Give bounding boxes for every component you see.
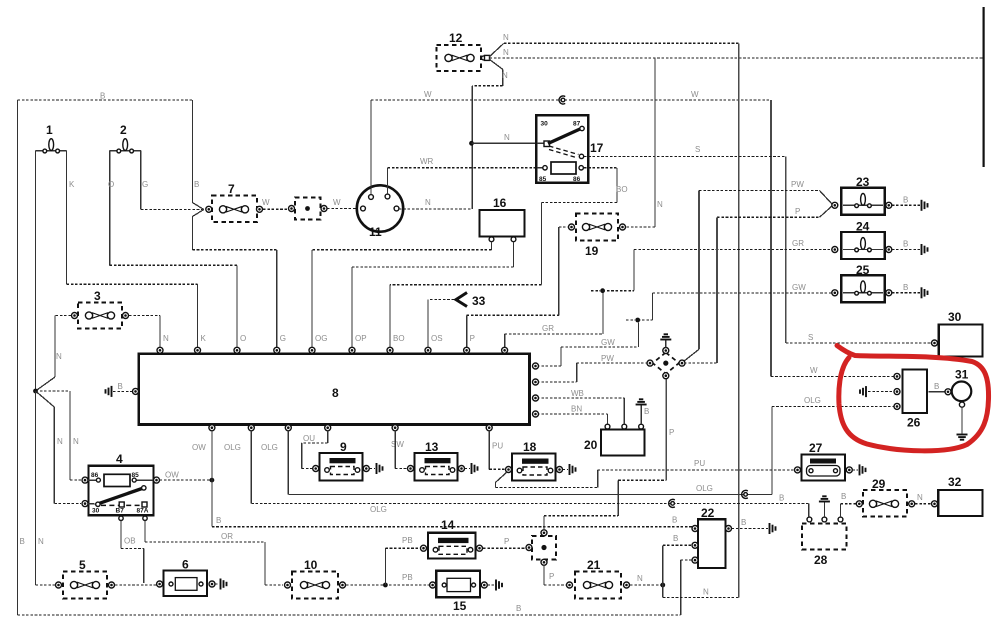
- ground right of 23: [922, 200, 928, 211]
- connector in OLG2: [742, 490, 748, 498]
- wire fuse 5 to lamp 6: [115, 584, 157, 586]
- svg-text:11: 11: [369, 225, 382, 239]
- svg-text:20: 20: [584, 438, 598, 452]
- wire B from 24: [892, 249, 920, 251]
- terminal 27 left: [795, 467, 801, 473]
- module 26: [894, 370, 927, 430]
- svg-text:B7: B7: [116, 508, 125, 515]
- ground right of 27: [860, 464, 866, 475]
- wire N to fuse 3: [55, 315, 71, 317]
- svg-text:GW: GW: [601, 338, 615, 347]
- fuse 7: [206, 182, 263, 222]
- terminal 8 bottom: [486, 425, 492, 431]
- terminal 13 left: [408, 466, 414, 472]
- svg-text:B: B: [216, 516, 221, 525]
- wire O drop: [236, 265, 238, 348]
- svg-text:N: N: [56, 352, 62, 361]
- svg-text:W: W: [810, 366, 818, 375]
- terminal 8 right: [533, 411, 539, 417]
- wire B from 22: [732, 528, 769, 530]
- svg-text:15: 15: [453, 599, 467, 613]
- wire W top: [371, 99, 771, 101]
- wire N from fuse 19: [627, 226, 656, 228]
- svg-text:PW: PW: [601, 354, 614, 363]
- wire N to relay 4 pin 30: [36, 391, 55, 407]
- wire OB from relay 4: [120, 521, 122, 549]
- ground right of 9: [377, 463, 383, 474]
- svg-text:N: N: [425, 198, 431, 207]
- wire OLG2 drop: [287, 430, 289, 494]
- wire PW top: [699, 189, 819, 191]
- terminal 13 right: [459, 466, 465, 472]
- fuse 10: [285, 558, 346, 599]
- svg-text:19: 19: [585, 244, 599, 258]
- svg-text:B: B: [903, 283, 908, 292]
- svg-text:24: 24: [856, 220, 870, 234]
- svg-text:PW: PW: [791, 180, 804, 189]
- svg-text:B: B: [841, 492, 846, 501]
- wire BN: [537, 413, 608, 415]
- terminal 27 right: [846, 467, 852, 473]
- wire OG from 16: [491, 242, 493, 250]
- wire W connector to 11: [327, 208, 360, 210]
- ground right of 15: [496, 580, 502, 591]
- svg-text:N: N: [503, 33, 509, 42]
- svg-text:N: N: [504, 133, 510, 142]
- terminal 8 top G: [274, 347, 280, 353]
- motor 31: [945, 368, 971, 408]
- wire PW from 8: [537, 381, 577, 383]
- wire B top border: [18, 99, 193, 101]
- wire S to 30: [786, 342, 932, 344]
- svg-text:N: N: [38, 537, 44, 546]
- motor 27: [802, 441, 846, 481]
- motor 18: [512, 440, 556, 481]
- svg-text:86: 86: [91, 472, 99, 479]
- svg-text:W: W: [333, 198, 341, 207]
- wire N fan down: [489, 59, 503, 69]
- fuse 29: [856, 477, 914, 517]
- fuse 5: [56, 558, 115, 599]
- svg-text:BO: BO: [616, 185, 628, 194]
- wire PU to 27: [598, 469, 796, 471]
- svg-text:OR: OR: [221, 532, 233, 541]
- terminal 8 bottom: [285, 425, 291, 431]
- svg-text:OW: OW: [192, 443, 206, 452]
- wire B from 9: [370, 468, 376, 470]
- distributor 11: [357, 185, 403, 239]
- wire PW riser diag: [684, 349, 700, 361]
- wire OW from relay 4: [160, 479, 210, 481]
- svg-text:PU: PU: [694, 459, 705, 468]
- svg-text:30: 30: [541, 121, 549, 128]
- wire N from 1 left: [35, 151, 37, 389]
- svg-text:K: K: [69, 180, 75, 189]
- wire OR from relay 4: [144, 521, 146, 543]
- svg-text:S: S: [695, 145, 700, 154]
- wire B to 22 pin1: [212, 526, 693, 528]
- svg-text:6: 6: [182, 558, 189, 572]
- svg-text:OLG: OLG: [696, 484, 713, 493]
- wire B from 25: [892, 292, 920, 294]
- wire N top run: [504, 42, 739, 44]
- svg-text:OP: OP: [355, 334, 367, 343]
- battery 20: [584, 424, 645, 455]
- svg-text:P: P: [504, 537, 509, 546]
- svg-text:W: W: [424, 90, 432, 99]
- wire W to 26: [771, 375, 894, 377]
- ground left of 26: [860, 386, 866, 397]
- wire 31 to ground: [961, 408, 963, 434]
- terminal 8 top K: [195, 347, 201, 353]
- svg-text:B: B: [903, 195, 908, 204]
- wire WR riser from 11: [387, 168, 389, 194]
- svg-text:21: 21: [587, 558, 601, 572]
- wire OW drop: [211, 430, 213, 478]
- wire GR from 8: [504, 334, 506, 348]
- svg-text:OW: OW: [165, 471, 179, 480]
- wire P from 14: [483, 547, 526, 549]
- svg-text:30: 30: [92, 508, 100, 515]
- relay 22: [692, 506, 732, 568]
- svg-text:N: N: [917, 493, 923, 502]
- svg-text:B: B: [100, 92, 105, 101]
- svg-text:B: B: [779, 494, 784, 503]
- terminal 9 left: [313, 466, 319, 472]
- svg-text:K: K: [201, 334, 207, 343]
- wire PB to 14: [385, 547, 420, 549]
- terminal 14 right: [477, 545, 483, 551]
- module 8: [139, 354, 530, 425]
- wire G branch diag: [192, 210, 203, 217]
- wire GW stub: [626, 319, 635, 321]
- svg-text:B: B: [741, 518, 746, 527]
- relay 17: [536, 115, 603, 183]
- wire B from 20 pin3: [640, 405, 642, 425]
- wire S drop: [785, 156, 787, 343]
- motor 9: [320, 440, 363, 481]
- svg-text:O: O: [240, 334, 246, 343]
- svg-text:G: G: [280, 334, 286, 343]
- ground above 20: [636, 399, 647, 404]
- svg-text:3: 3: [94, 289, 101, 303]
- wire N down to fuse 5: [35, 391, 37, 585]
- svg-text:WB: WB: [571, 389, 584, 398]
- wire OS riser: [427, 300, 429, 348]
- svg-text:16: 16: [493, 196, 507, 210]
- wire N fan up: [489, 43, 504, 57]
- wire N jog: [472, 85, 503, 87]
- svg-text:B: B: [644, 407, 649, 416]
- svg-text:N: N: [163, 334, 169, 343]
- wire B to 8 left: [113, 390, 132, 392]
- wire P from diamond: [665, 378, 667, 481]
- svg-text:7: 7: [228, 182, 235, 196]
- wire PU under run: [495, 486, 597, 488]
- wire W fuse 7 to connector: [263, 208, 288, 210]
- svg-text:N: N: [703, 588, 709, 597]
- svg-text:G: G: [142, 180, 148, 189]
- node OW junction: [210, 478, 215, 483]
- ground right of 22: [770, 523, 776, 534]
- svg-text:P: P: [549, 572, 554, 581]
- ground above 28: [819, 496, 830, 501]
- terminal 8 top OS: [425, 347, 431, 353]
- wire ground to 26: [868, 391, 894, 393]
- motor 13: [415, 440, 458, 481]
- wire PU underpass: [495, 472, 507, 483]
- ground right of 6: [221, 579, 227, 590]
- wire W drop right: [770, 100, 772, 376]
- lamp 25: [832, 263, 892, 302]
- junction diamond: [647, 348, 685, 379]
- sender 1: [36, 123, 67, 153]
- terminal 8 top O: [234, 347, 240, 353]
- wire OW/B drop: [211, 430, 213, 527]
- wire P to diamond: [684, 362, 717, 364]
- lamp 23: [832, 175, 892, 215]
- ground above diamond: [660, 334, 671, 339]
- svg-text:27: 27: [809, 441, 823, 455]
- module 16: [480, 196, 525, 242]
- wire N into fuse 5: [36, 584, 56, 586]
- svg-text:W: W: [262, 198, 270, 207]
- svg-text:GW: GW: [792, 283, 806, 292]
- node PB junction: [383, 583, 388, 588]
- fuse 12: [436, 31, 489, 71]
- wire N from fuse 3: [129, 315, 160, 317]
- arrow 33: [430, 293, 486, 309]
- svg-text:P: P: [669, 428, 674, 437]
- connector in OLG1: [669, 499, 675, 507]
- svg-text:BO: BO: [393, 334, 405, 343]
- wire N riser to 22 pin2: [662, 545, 664, 585]
- svg-text:1: 1: [46, 123, 53, 137]
- svg-text:B: B: [516, 604, 521, 613]
- terminal 8 right: [533, 363, 539, 369]
- wire B from 27: [852, 469, 858, 471]
- svg-text:B: B: [934, 382, 939, 391]
- svg-text:B: B: [672, 516, 677, 525]
- terminal 8 top P: [464, 347, 470, 353]
- svg-text:OS: OS: [431, 334, 443, 343]
- wire B bottom border: [18, 614, 681, 616]
- svg-text:B: B: [194, 180, 199, 189]
- svg-text:32: 32: [948, 475, 962, 489]
- wire B join diag: [192, 203, 203, 210]
- svg-text:BN: BN: [571, 405, 582, 414]
- svg-text:23: 23: [856, 175, 870, 189]
- svg-text:9: 9: [340, 440, 347, 454]
- node GR junction: [600, 288, 605, 293]
- node N relay tap: [469, 141, 474, 146]
- svg-text:26: 26: [907, 416, 921, 430]
- svg-text:B: B: [20, 537, 25, 546]
- wire G to fuse 7: [141, 209, 206, 211]
- wire N mid run: [490, 57, 984, 59]
- svg-text:N: N: [503, 48, 509, 57]
- wire K drop: [197, 284, 199, 348]
- svg-text:18: 18: [523, 440, 537, 454]
- wire P riser: [716, 217, 718, 363]
- motor 14: [428, 518, 476, 559]
- svg-text:87A: 87A: [137, 508, 149, 515]
- svg-text:4: 4: [116, 452, 123, 466]
- wire OLG1 run: [251, 502, 809, 504]
- wire B drop: [191, 100, 193, 203]
- wire PB riser: [384, 548, 386, 585]
- svg-text:O: O: [108, 180, 114, 189]
- svg-text:22: 22: [701, 506, 715, 520]
- svg-text:N: N: [57, 437, 63, 446]
- svg-text:OLG: OLG: [261, 443, 278, 452]
- wire N into relay 17: [472, 142, 544, 144]
- wire B from 28 pin3: [840, 504, 842, 517]
- wire G drop to 8: [276, 250, 278, 348]
- svg-text:OLG: OLG: [804, 396, 821, 405]
- wire W riser from 11: [370, 100, 372, 195]
- ground left of 8: [106, 386, 112, 397]
- wire B from 23: [892, 204, 920, 206]
- wire B 26 to 31: [929, 391, 945, 393]
- svg-text:WR: WR: [420, 157, 434, 166]
- svg-text:B: B: [118, 382, 123, 391]
- svg-text:OB: OB: [124, 537, 136, 546]
- ground right of 13: [472, 463, 478, 474]
- wire OLG1 drop: [250, 430, 252, 503]
- wire OP from 16: [513, 242, 515, 268]
- svg-text:31: 31: [955, 368, 969, 382]
- junction box 28: [802, 517, 847, 567]
- wire O from 2 left: [109, 151, 111, 266]
- wire S from relay 17: [584, 155, 786, 157]
- svg-text:28: 28: [814, 553, 828, 567]
- wire GR stub: [591, 290, 600, 292]
- svg-text:GR: GR: [542, 324, 554, 333]
- wire PB fuse 10 to lamp 15: [346, 584, 430, 586]
- wire SW: [394, 430, 396, 469]
- terminal 8 bottom: [392, 425, 398, 431]
- wire to ground above diamond: [665, 340, 667, 348]
- wire B left border: [17, 100, 19, 615]
- wire P drop to fuse 21: [543, 565, 545, 585]
- svg-text:85: 85: [539, 176, 547, 183]
- svg-text:10: 10: [304, 558, 318, 572]
- terminal 8 left: [133, 388, 139, 394]
- svg-text:PU: PU: [492, 442, 503, 451]
- wire GW jog: [638, 319, 653, 321]
- wire GR jog: [603, 290, 634, 292]
- svg-text:N: N: [657, 200, 663, 209]
- node GW junction: [635, 318, 640, 323]
- svg-text:P: P: [470, 334, 475, 343]
- terminal 8 right: [533, 395, 539, 401]
- ground below 31: [957, 435, 968, 440]
- svg-text:N: N: [73, 437, 79, 446]
- wire P to fuse 19: [466, 315, 468, 348]
- svg-text:33: 33: [472, 294, 486, 308]
- edge mark: [982, 7, 984, 167]
- wire N diag: [36, 377, 56, 391]
- wire OLG to 26: [772, 405, 894, 407]
- svg-text:PB: PB: [402, 536, 413, 545]
- sender 2: [110, 123, 141, 153]
- terminal 8 top GR: [502, 347, 508, 353]
- svg-text:PB: PB: [402, 573, 413, 582]
- fuse 19: [569, 214, 626, 259]
- wire WR: [388, 167, 544, 169]
- lamp 24: [832, 220, 892, 260]
- ground right of 25: [922, 287, 928, 298]
- wire B riser to 22 pin3: [680, 560, 682, 615]
- terminal 9 right: [363, 466, 369, 472]
- wire N to relay 4 pin 86: [36, 390, 71, 392]
- wire N long drop: [738, 43, 740, 597]
- svg-text:P: P: [795, 207, 800, 216]
- wire BO from relay 17: [584, 167, 617, 169]
- svg-text:85: 85: [132, 472, 140, 479]
- svg-text:GR: GR: [792, 239, 804, 248]
- annotation red circle: [837, 346, 989, 451]
- terminal 8 top OP: [349, 347, 355, 353]
- fuse 3: [72, 289, 129, 329]
- terminal 8 right: [533, 379, 539, 385]
- wire N from fuse 21: [630, 584, 661, 586]
- lamp 15: [430, 571, 488, 613]
- wire N from 11: [399, 208, 472, 210]
- svg-text:OU: OU: [303, 434, 315, 443]
- wire OLG2 riser: [771, 406, 773, 494]
- connector in W top: [559, 96, 565, 104]
- svg-text:29: 29: [872, 477, 886, 491]
- svg-text:12: 12: [449, 31, 463, 45]
- wire PW riser: [698, 190, 700, 349]
- wire B from 13: [465, 468, 471, 470]
- svg-text:OLG: OLG: [370, 505, 387, 514]
- ground right of 24: [922, 244, 928, 255]
- terminal 18 right: [557, 467, 563, 473]
- wire N from 29: [915, 503, 933, 505]
- connector in W line: [289, 198, 328, 220]
- svg-text:N: N: [637, 574, 643, 583]
- svg-text:17: 17: [590, 141, 604, 155]
- wire G branch drop: [191, 217, 193, 250]
- ground right of 18: [570, 464, 576, 475]
- svg-text:N: N: [502, 71, 508, 80]
- wire N drop: [662, 585, 664, 598]
- terminal 30 left: [932, 340, 938, 346]
- node N junction: [660, 583, 665, 588]
- module 32: [938, 475, 982, 516]
- wire K from 1 right: [66, 151, 68, 285]
- svg-text:OG: OG: [315, 334, 327, 343]
- svg-text:OLG: OLG: [224, 443, 241, 452]
- wire B from 18: [563, 469, 569, 471]
- wire B from 15: [487, 584, 494, 586]
- node N junction: [33, 389, 38, 394]
- wire P jog: [544, 515, 618, 517]
- wire WB: [537, 397, 624, 399]
- module 30: [939, 310, 983, 357]
- wire PU drop: [488, 430, 490, 469]
- wire OLG2 run: [288, 493, 772, 495]
- fuse 21: [567, 558, 630, 599]
- svg-text:87: 87: [573, 121, 581, 128]
- svg-text:SW: SW: [391, 440, 404, 449]
- svg-text:S: S: [808, 333, 813, 342]
- junction box P: [526, 530, 556, 566]
- svg-text:B: B: [903, 240, 908, 249]
